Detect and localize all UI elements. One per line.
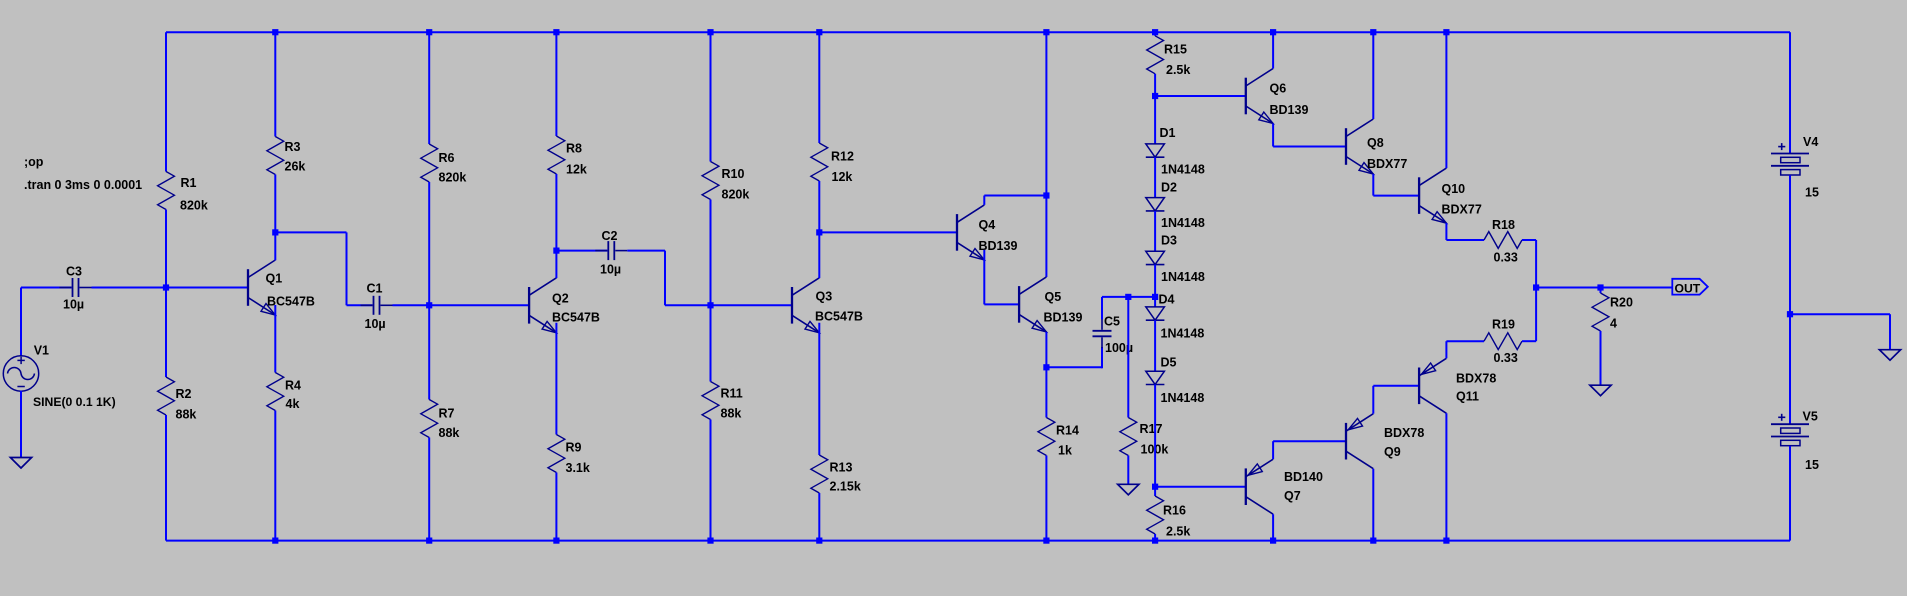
wire rail to V4 bbox=[1789, 32, 1791, 153]
svg-text:R14: R14 bbox=[1056, 424, 1079, 438]
label Q5 name bbox=[1045, 290, 1062, 304]
wire R16 top bbox=[1154, 487, 1156, 496]
node D5 R16 junction bbox=[1152, 484, 1158, 490]
svg-text:Q2: Q2 bbox=[552, 292, 569, 306]
svg-text:D1: D1 bbox=[1160, 126, 1176, 140]
label V5 value bbox=[1805, 458, 1819, 472]
label R19 name bbox=[1492, 318, 1515, 332]
wire Q7 emitter up bbox=[1272, 441, 1274, 459]
node top rail junction bbox=[707, 29, 713, 35]
label Q3 value bbox=[815, 310, 863, 324]
svg-text:820k: 820k bbox=[439, 171, 467, 185]
label R18 value bbox=[1494, 251, 1518, 265]
wire V1 top lead bbox=[20, 288, 22, 357]
node C5 R17 junction bbox=[1125, 294, 1131, 300]
label D5 value bbox=[1161, 391, 1205, 405]
svg-text:12k: 12k bbox=[566, 163, 587, 177]
wire Q10 emitter to R18 bbox=[1446, 239, 1484, 241]
label V4 value bbox=[1805, 186, 1819, 200]
wire C1 to Q2 base node bbox=[393, 304, 430, 306]
label C5 value bbox=[1105, 341, 1133, 355]
wire Q9 collector to bottom rail bbox=[1372, 469, 1374, 541]
svg-text:15: 15 bbox=[1805, 186, 1819, 200]
wire C2 to corner bbox=[627, 250, 665, 252]
label R20 value bbox=[1610, 317, 1617, 331]
svg-text:;op: ;op bbox=[24, 155, 44, 169]
label R14 name bbox=[1056, 424, 1079, 438]
voltage source V4 (battery) bbox=[1771, 143, 1809, 175]
label R1 value bbox=[180, 199, 208, 213]
svg-text:R9: R9 bbox=[566, 441, 582, 455]
resistor R3 bbox=[267, 137, 284, 175]
svg-text:1N4148: 1N4148 bbox=[1161, 163, 1205, 177]
wire Q3 collector bbox=[818, 232, 820, 278]
wire V1 to C3 bbox=[21, 287, 72, 289]
diode D4 bbox=[1146, 307, 1165, 320]
svg-text:BDX77: BDX77 bbox=[1442, 203, 1482, 217]
node bottom rail junction bbox=[1443, 538, 1449, 544]
wire rail to Q5 collector bbox=[1045, 32, 1047, 277]
svg-text:BC547B: BC547B bbox=[815, 310, 863, 324]
transistor Q8 (NPN) bbox=[1346, 119, 1373, 174]
node top rail junction bbox=[1152, 29, 1158, 35]
label Q10 value bbox=[1442, 203, 1482, 217]
label R13 name bbox=[830, 461, 853, 475]
svg-text:Q4: Q4 bbox=[979, 218, 996, 232]
label Q10 name bbox=[1442, 182, 1466, 196]
svg-text:R2: R2 bbox=[176, 387, 192, 401]
wire Q8 collector to rail bbox=[1372, 32, 1374, 119]
svg-text:V1: V1 bbox=[34, 344, 49, 358]
label R13 value bbox=[830, 480, 861, 494]
wire R2 to bottom rail bbox=[165, 415, 167, 541]
wire R20 top bbox=[1600, 288, 1602, 294]
wire Q3 base node to Q3 bbox=[711, 304, 793, 306]
transistor Q2 (NPN) bbox=[529, 278, 556, 333]
wire Q6 emitter to Q8 base bbox=[1273, 146, 1346, 148]
capacitor C2 bbox=[595, 241, 627, 260]
svg-text:2.5k: 2.5k bbox=[1166, 63, 1190, 77]
transistor Q3 (NPN) bbox=[792, 278, 819, 333]
svg-text:1N4148: 1N4148 bbox=[1161, 391, 1205, 405]
wire C2 corner vertical bbox=[664, 251, 666, 306]
resistor R8 bbox=[548, 136, 565, 174]
label D3 value bbox=[1161, 270, 1205, 284]
label D1 name bbox=[1160, 126, 1176, 140]
transistor Q6 (NPN) bbox=[1246, 69, 1273, 124]
wire Q1 emitter to R4 bbox=[274, 305, 276, 373]
wire corner to Q3 base node bbox=[665, 304, 711, 306]
wire rail to R12 bbox=[818, 32, 820, 143]
wire R18 corner to output node bbox=[1535, 240, 1537, 288]
svg-text:BC547B: BC547B bbox=[267, 295, 315, 309]
svg-text:BD139: BD139 bbox=[1044, 311, 1083, 325]
resistor R19 bbox=[1484, 333, 1522, 350]
label C1 name bbox=[367, 282, 383, 296]
wire R13 to bottom rail bbox=[818, 493, 820, 541]
wire Q8 emitter to Q10 base bbox=[1373, 195, 1419, 197]
wire R4 to bottom rail bbox=[274, 411, 276, 541]
transistor Q7 (PNP) bbox=[1246, 459, 1273, 514]
svg-text:R4: R4 bbox=[285, 379, 301, 393]
node bottom rail junction bbox=[816, 538, 822, 544]
label R17 value bbox=[1141, 443, 1169, 457]
wire Q10 collector to rail bbox=[1445, 32, 1447, 168]
node Q2 collector junction bbox=[553, 248, 559, 254]
svg-text:Q10: Q10 bbox=[1442, 182, 1466, 196]
node top rail junction bbox=[426, 29, 432, 35]
resistor R17 bbox=[1120, 418, 1137, 456]
svg-text:3.1k: 3.1k bbox=[566, 461, 590, 475]
svg-text:BD139: BD139 bbox=[1270, 103, 1309, 117]
resistor R6 bbox=[421, 144, 438, 182]
label R9 value bbox=[566, 461, 590, 475]
label Q1 name bbox=[266, 272, 283, 286]
wire R17 column bbox=[1127, 297, 1129, 418]
svg-text:D3: D3 bbox=[1161, 234, 1177, 248]
wire corner to C1 bbox=[347, 304, 373, 306]
wire input node to Q1 base bbox=[166, 287, 248, 289]
resistor R13 bbox=[811, 455, 828, 493]
label Q2 name bbox=[552, 292, 569, 306]
label C1 value bbox=[365, 317, 386, 331]
wire rail to R8 bbox=[555, 32, 557, 136]
label R10 value bbox=[722, 188, 750, 202]
label D4 name bbox=[1159, 293, 1175, 307]
label R3 name bbox=[285, 140, 301, 154]
label C2 name bbox=[602, 229, 618, 243]
label OUT text bbox=[1675, 281, 1701, 295]
capacitor C3 bbox=[60, 278, 92, 297]
label R6 name bbox=[439, 151, 455, 165]
wire R6 to Q2 base node bbox=[428, 182, 430, 305]
svg-text:C5: C5 bbox=[1104, 315, 1120, 329]
svg-text:820k: 820k bbox=[180, 199, 208, 213]
wire Q6 emitter down bbox=[1272, 124, 1274, 147]
wire Q9 emitter up bbox=[1372, 386, 1374, 414]
label Q5 value bbox=[1044, 311, 1083, 325]
svg-text:C2: C2 bbox=[602, 229, 618, 243]
node top rail junction bbox=[1043, 29, 1049, 35]
svg-text:2.5k: 2.5k bbox=[1166, 525, 1190, 539]
label Q6 name bbox=[1270, 82, 1287, 96]
svg-text:1N4148: 1N4148 bbox=[1161, 270, 1205, 284]
node Q4 collector junction bbox=[1043, 192, 1049, 198]
svg-text:2.15k: 2.15k bbox=[830, 480, 861, 494]
svg-text:R15: R15 bbox=[1164, 43, 1187, 57]
diode D2 bbox=[1146, 198, 1165, 211]
label D1 value bbox=[1161, 163, 1205, 177]
wire Q2 base node to Q2 bbox=[429, 304, 529, 306]
node bottom rail junction bbox=[1043, 538, 1049, 544]
node Q2 base junction bbox=[426, 302, 432, 308]
label C3 value bbox=[63, 298, 84, 312]
label V4 name bbox=[1803, 135, 1818, 149]
label Q7 name bbox=[1284, 489, 1301, 503]
resistor R7 bbox=[421, 400, 438, 438]
label R6 value bbox=[439, 171, 467, 185]
label R2 name bbox=[176, 387, 192, 401]
svg-text:D5: D5 bbox=[1161, 356, 1177, 370]
wire R15 to D1 node bbox=[1154, 74, 1156, 96]
svg-text:R16: R16 bbox=[1163, 504, 1186, 518]
node Q1 collector junction bbox=[272, 229, 278, 235]
resistor R1 bbox=[158, 172, 175, 210]
svg-text:C1: C1 bbox=[367, 282, 383, 296]
label R16 value bbox=[1166, 525, 1190, 539]
label R15 name bbox=[1164, 43, 1187, 57]
svg-text:R20: R20 bbox=[1610, 296, 1633, 310]
node Q3 collector junction bbox=[816, 229, 822, 235]
wire Q11 emitter up bbox=[1445, 341, 1447, 358]
net label OUT flag bbox=[1672, 279, 1708, 295]
wire V5 to bottom rail bbox=[1789, 446, 1791, 541]
diode D3 bbox=[1146, 251, 1165, 264]
wire R17 to ground bbox=[1127, 456, 1129, 485]
wire rail to R1 bbox=[165, 32, 167, 171]
label D4 value bbox=[1161, 327, 1205, 341]
label R19 value bbox=[1494, 351, 1518, 365]
ground supplies bbox=[1879, 350, 1900, 361]
wire C3 to input node bbox=[92, 287, 167, 289]
transistor Q10 (NPN) bbox=[1419, 168, 1446, 223]
svg-text:R17: R17 bbox=[1140, 422, 1163, 436]
capacitor C5 bbox=[1093, 319, 1112, 349]
wire R16 to bottom rail bbox=[1154, 534, 1156, 541]
node top rail junction bbox=[1270, 29, 1276, 35]
wire Q7 collector to bottom rail bbox=[1272, 514, 1274, 540]
svg-text:1N4148: 1N4148 bbox=[1161, 327, 1205, 341]
svg-text:R6: R6 bbox=[439, 151, 455, 165]
wire Q3 collector node to Q4 base bbox=[819, 231, 957, 233]
wire Q2 base node to R7 bbox=[428, 305, 430, 399]
label R12 name bbox=[831, 150, 854, 164]
wire Q8 emitter down bbox=[1372, 174, 1374, 196]
ground R17 bbox=[1118, 484, 1139, 495]
node diode D3-D4 junction bbox=[1152, 294, 1158, 300]
label V1 value bbox=[33, 395, 116, 409]
svg-text:C3: C3 bbox=[66, 265, 82, 279]
label R15 value bbox=[1166, 63, 1190, 77]
svg-text:820k: 820k bbox=[722, 188, 750, 202]
wire R19 corner to output node bbox=[1535, 288, 1537, 342]
transistor Q1 (NPN) bbox=[248, 260, 275, 315]
wire R9 to bottom rail bbox=[555, 473, 557, 541]
node junction input bbox=[163, 284, 169, 290]
node Q5 emitter junction bbox=[1043, 364, 1049, 370]
svg-text:R8: R8 bbox=[566, 142, 582, 156]
label R12 value bbox=[832, 170, 853, 184]
node Q3 base junction bbox=[707, 302, 713, 308]
wire Q2 collector node to C2 bbox=[556, 250, 607, 252]
node top rail junction bbox=[816, 29, 822, 35]
svg-text:15: 15 bbox=[1805, 458, 1819, 472]
svg-text:4: 4 bbox=[1610, 317, 1617, 331]
wire Q4 emitter to Q5 base bbox=[984, 303, 1019, 305]
wire supply ground lead bbox=[1889, 314, 1891, 350]
resistor R20 bbox=[1592, 293, 1609, 331]
node supply mid junction bbox=[1787, 311, 1793, 317]
wire R19 to output corner bbox=[1522, 340, 1536, 342]
svg-text:V4: V4 bbox=[1803, 135, 1818, 149]
wire input node to R2 bbox=[165, 288, 167, 378]
wire rail to R10 bbox=[710, 32, 712, 161]
svg-text:R11: R11 bbox=[721, 387, 743, 401]
node output junction bbox=[1533, 284, 1539, 290]
label C2 value bbox=[600, 263, 621, 277]
svg-text:10µ: 10µ bbox=[365, 317, 386, 331]
label R3 value bbox=[285, 160, 306, 174]
resistor R4 bbox=[267, 373, 284, 411]
wire D1 to D2 bbox=[1154, 157, 1156, 198]
label R1 name bbox=[181, 176, 197, 190]
wire V1 bottom lead bbox=[20, 391, 22, 458]
label V5 name bbox=[1803, 410, 1818, 424]
voltage source V5 (battery) bbox=[1771, 414, 1809, 446]
node bottom rail junction bbox=[1370, 538, 1376, 544]
wire Q1 collector node to C1 corner bbox=[275, 231, 346, 233]
wire R18 to output corner bbox=[1522, 239, 1536, 241]
label R18 name bbox=[1492, 218, 1515, 232]
label Q9 name bbox=[1384, 445, 1401, 459]
wire Q9 emitter to Q11 base bbox=[1373, 385, 1419, 387]
svg-text:R7: R7 bbox=[439, 407, 455, 421]
svg-text:Q5: Q5 bbox=[1045, 290, 1062, 304]
svg-text:Q9: Q9 bbox=[1384, 445, 1401, 459]
svg-text:BDX78: BDX78 bbox=[1384, 426, 1424, 440]
label Q8 value bbox=[1367, 157, 1407, 171]
wire Q4 collector stub bbox=[983, 196, 985, 205]
label D5 name bbox=[1161, 356, 1177, 370]
node bottom rail junction bbox=[1152, 538, 1158, 544]
svg-text:Q7: Q7 bbox=[1284, 489, 1301, 503]
wire Q2 emitter to R9 bbox=[555, 323, 557, 435]
svg-text:88k: 88k bbox=[439, 426, 460, 440]
label Q8 name bbox=[1367, 136, 1384, 150]
wire Q11 collector to bottom rail bbox=[1445, 413, 1447, 540]
resistor R15 bbox=[1147, 36, 1164, 74]
wire Q4 emitter down bbox=[983, 250, 985, 305]
svg-text:26k: 26k bbox=[285, 160, 306, 174]
label R20 name bbox=[1610, 296, 1633, 310]
svg-text:D2: D2 bbox=[1161, 181, 1177, 195]
svg-text:Q1: Q1 bbox=[266, 272, 283, 286]
ground R20 bbox=[1590, 385, 1611, 396]
ground V1 bbox=[10, 458, 31, 469]
svg-text:88k: 88k bbox=[176, 408, 197, 422]
label R7 name bbox=[439, 407, 455, 421]
wire Q7 emitter to Q9 base bbox=[1273, 440, 1346, 442]
resistor R10 bbox=[702, 162, 719, 200]
svg-text:.tran 0 3ms 0 0.0001: .tran 0 3ms 0 0.0001 bbox=[24, 178, 142, 192]
diode D1 bbox=[1146, 144, 1165, 157]
svg-text:10µ: 10µ bbox=[600, 263, 621, 277]
node top rail junction bbox=[1443, 29, 1449, 35]
node bottom rail junction bbox=[426, 538, 432, 544]
svg-text:R10: R10 bbox=[722, 167, 745, 181]
label R9 name bbox=[566, 441, 582, 455]
wire Q6 collector to rail bbox=[1272, 32, 1274, 68]
wire C5 top lead bbox=[1101, 297, 1103, 319]
node top rail junction bbox=[1370, 29, 1376, 35]
label R11 name bbox=[721, 387, 743, 401]
svg-text:10µ: 10µ bbox=[63, 298, 84, 312]
wire D1 node to Q6 base bbox=[1155, 95, 1246, 97]
label R14 value bbox=[1058, 444, 1072, 458]
resistor R11 bbox=[702, 382, 719, 420]
label Q6 value bbox=[1270, 103, 1309, 117]
svg-text:1k: 1k bbox=[1058, 444, 1072, 458]
svg-text:BDX78: BDX78 bbox=[1456, 372, 1496, 386]
svg-text:V5: V5 bbox=[1803, 410, 1818, 424]
node R20 junction bbox=[1597, 284, 1603, 290]
wire output node to OUT flag bbox=[1536, 287, 1672, 289]
spice directive op bbox=[24, 155, 44, 169]
svg-text:Q11: Q11 bbox=[1456, 390, 1479, 404]
label R7 value bbox=[439, 426, 460, 440]
svg-text:1N4148: 1N4148 bbox=[1161, 216, 1205, 230]
wire Q5 emitter to R14 bbox=[1045, 367, 1047, 417]
svg-text:Q6: Q6 bbox=[1270, 82, 1287, 96]
node R15 D1 junction bbox=[1152, 93, 1158, 99]
wire C1 corner vertical bbox=[346, 232, 348, 305]
label Q11 value bbox=[1456, 372, 1496, 386]
wire mid node to V5 bbox=[1789, 314, 1791, 424]
wire R12 to Q3 collector node bbox=[818, 181, 820, 232]
wire D5 to Q7 base node bbox=[1154, 385, 1156, 487]
resistor R14 bbox=[1038, 418, 1055, 456]
svg-text:SINE(0 0.1 1K): SINE(0 0.1 1K) bbox=[33, 395, 116, 409]
label Q7 value bbox=[1284, 470, 1323, 484]
wire Q11 emitter to R19 bbox=[1446, 340, 1484, 342]
spice directive tran bbox=[24, 178, 142, 192]
transistor Q5 (NPN) bbox=[1019, 277, 1046, 332]
wire Q10 emitter down bbox=[1445, 223, 1447, 240]
label R4 name bbox=[285, 379, 301, 393]
wire Q5 emitter down bbox=[1045, 332, 1047, 367]
svg-text:BC547B: BC547B bbox=[552, 311, 600, 325]
label R4 value bbox=[286, 397, 300, 411]
wire C5 bottom lead bbox=[1101, 347, 1103, 368]
wire bottom supply rail bbox=[166, 540, 1790, 542]
transistor Q9 (PNP) bbox=[1346, 414, 1373, 469]
label Q4 value bbox=[979, 239, 1018, 253]
label R8 value bbox=[566, 163, 587, 177]
wire D3 to D4 node bbox=[1154, 265, 1156, 297]
svg-text:R13: R13 bbox=[830, 461, 853, 475]
voltage source V1 (sine) bbox=[3, 356, 38, 391]
svg-text:R19: R19 bbox=[1492, 318, 1515, 332]
wire Q3 base node to R11 bbox=[710, 305, 712, 381]
wire rail to R3 bbox=[274, 32, 276, 136]
label R2 value bbox=[176, 408, 197, 422]
diode D5 bbox=[1146, 371, 1165, 384]
svg-text:Q3: Q3 bbox=[816, 290, 833, 304]
label D2 name bbox=[1161, 181, 1177, 195]
wire mid node to ground bbox=[1790, 313, 1890, 315]
wire R10 to Q3 base node bbox=[710, 200, 712, 306]
label Q9 value bbox=[1384, 426, 1424, 440]
node bottom rail junction bbox=[1270, 538, 1276, 544]
wire V4 to mid node bbox=[1789, 175, 1791, 314]
label R8 name bbox=[566, 142, 582, 156]
wire R8 to Q2 collector node bbox=[555, 174, 557, 251]
svg-text:88k: 88k bbox=[721, 407, 742, 421]
resistor R16 bbox=[1147, 496, 1164, 534]
label Q11 name bbox=[1456, 390, 1479, 404]
label V1 name bbox=[34, 344, 49, 358]
resistor R18 bbox=[1484, 232, 1522, 249]
